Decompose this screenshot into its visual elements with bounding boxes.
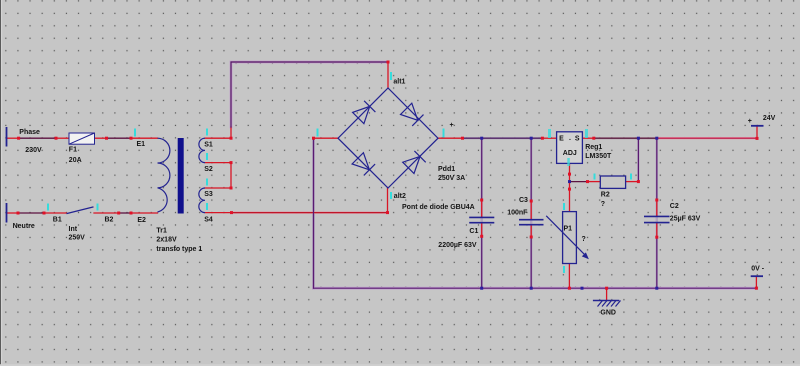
diode D2 (alt1 to plus, top-right edge) (401, 103, 424, 126)
pin marker plus (443, 129, 445, 138)
svg-text:Neutre: Neutre (13, 223, 35, 230)
wire C1 bottom pin stub (481, 223, 483, 236)
node A1 junction (17, 137, 20, 140)
svg-text:S3: S3 (204, 191, 213, 198)
regulator Reg1 LM350T body (557, 132, 583, 164)
svg-text:transfo type 1: transfo type 1 (156, 246, 202, 253)
svg-text:2x18V: 2x18V (156, 237, 177, 244)
node C1 top rail junction (480, 137, 483, 140)
wire node E1 to transformer primary top (131, 137, 158, 139)
pin marker S1 (206, 129, 208, 136)
wire bridge plus vertex to node P (438, 137, 463, 139)
node P junction (plus) (461, 137, 464, 140)
pin marker alt1 (390, 72, 392, 80)
pin marker S3 (206, 179, 208, 186)
wire halo alt2 run (232, 212, 388, 214)
wire 24V corner up to terminal (756, 126, 758, 139)
node A2 junction (55, 137, 58, 140)
node ADJ pin endpoint (568, 173, 571, 176)
wire node B0 to node B1 (18, 212, 44, 214)
wire C1 column upper (481, 138, 483, 200)
node S3 junction (230, 187, 233, 190)
wire S1 riser and top run to alt1 corner (231, 62, 388, 127)
wire node S1 red stub up (230, 127, 232, 138)
node C2 top rail junction (655, 137, 658, 140)
svg-text:?: ? (601, 201, 605, 208)
svg-text:Int: Int (69, 226, 78, 233)
wire halo top rail left (463, 137, 543, 139)
wire C2 column upper (656, 138, 658, 200)
bridge Pdd1 diamond edges (338, 88, 438, 188)
wire GND stub (606, 288, 608, 300)
svg-text:F1: F1 (69, 147, 77, 154)
svg-text:ADJ: ADJ (563, 150, 577, 157)
wire R2 left node to R2 left pin (588, 181, 601, 183)
wire link node S2 to node S3 (230, 163, 232, 188)
wire S1 pin to node S1 (205, 137, 231, 139)
wire switch right contact to node B2 (94, 212, 119, 214)
wire C1 column lower (481, 236, 483, 288)
node GND rail junction (605, 287, 608, 290)
pin marker P1 top (563, 203, 565, 210)
pin marker alt2 (390, 192, 392, 199)
svg-text:C3: C3 (519, 197, 528, 204)
node regulator output endpoint (592, 137, 595, 140)
svg-text:Tr1: Tr1 (156, 227, 167, 234)
wire alt1 corner down to bridge top vertex (387, 62, 389, 88)
wire regulator ADJ pin column down to P1 top (569, 163, 571, 211)
wire halo top rail mid (594, 137, 657, 139)
wire halo top rail right (657, 137, 757, 139)
node M junction (minus) (312, 137, 315, 140)
transformer Tr1 core (178, 138, 184, 214)
svg-text:230V: 230V (25, 147, 42, 154)
wire halo R2 riser (637, 139, 639, 182)
terminal 0V (output bar) (751, 275, 763, 277)
svg-text:25µF 63V: 25µF 63V (670, 215, 701, 222)
wire R2 right pin to R2 right node (626, 181, 639, 183)
wire C2 top pin stub (656, 200, 658, 216)
node B2 junction (117, 212, 120, 215)
svg-text:E2: E2 (137, 217, 146, 224)
wire R2 right node riser up to top rail (637, 138, 639, 181)
svg-text:S2: S2 (204, 166, 213, 173)
node S1 junction (230, 137, 233, 140)
wire C1 top pin stub (481, 200, 483, 217)
node P1 bottom rail junction (568, 287, 571, 290)
svg-text:+: + (450, 122, 454, 129)
diode D3 (minus to alt2, bottom-left edge) (352, 153, 375, 176)
node S4 junction (230, 211, 233, 214)
node R2 right junction (637, 180, 640, 183)
wire halo S1 riser top run (231, 62, 388, 127)
terminal 24V (output bar) (751, 125, 764, 127)
wire node A2 to fuse F1 left pin (56, 137, 69, 139)
node alt2 junction (386, 211, 389, 214)
pin marker R2 left (594, 174, 596, 180)
wire S4 pin to node S4 (205, 212, 232, 214)
svg-text:100nF: 100nF (507, 210, 528, 217)
wire C2 bottom pin stub (656, 223, 658, 237)
switch Int (blade) (67, 207, 94, 214)
node ADJ T-junction (568, 180, 571, 183)
wire top rail C2 node to 24V corner (657, 137, 757, 139)
svg-text:Pont de diode GBU4A: Pont de diode GBU4A (402, 204, 475, 211)
node S2 junction (230, 161, 233, 164)
svg-text:C2: C2 (670, 203, 679, 210)
svg-text:0V -: 0V - (751, 266, 765, 273)
transformer Tr1 secondary winding S3-S4 (199, 188, 205, 213)
svg-text:250V: 250V (69, 235, 86, 242)
pin marker E1 (134, 129, 136, 137)
wire bottom rail (0V bus) (314, 287, 757, 289)
pin marker regulator ADJ (567, 158, 570, 166)
wire S3 pin to node S3 (205, 187, 231, 189)
svg-text:S1: S1 (204, 142, 213, 149)
svg-text:+: + (748, 118, 752, 125)
pin marker minus (317, 129, 319, 137)
potentiometer P1 arrow (546, 216, 589, 259)
transformer Tr1 secondary winding S1-S2 (199, 138, 205, 162)
svg-text:24V: 24V (763, 115, 776, 122)
node rail junction near P1 (581, 287, 584, 290)
svg-text:P1: P1 (564, 225, 573, 232)
node 24V corner (756, 137, 759, 140)
capacitor C1 plates (469, 217, 494, 222)
wire S2 pin to node S2 (205, 162, 231, 164)
capacitor C3 plates (519, 220, 544, 225)
wire C3 column upper (530, 138, 532, 201)
node E2 junction (130, 212, 133, 215)
terminal Neutre (input bar) (6, 203, 8, 223)
node C3 top rail junction (530, 137, 533, 140)
pin marker switch left (47, 204, 49, 211)
svg-text:Pdd1: Pdd1 (438, 166, 455, 173)
wire top rail node P to regulator input node (463, 137, 543, 139)
node alt1 corner junction (387, 61, 390, 64)
svg-text:alt2: alt2 (394, 193, 406, 200)
svg-text:?: ? (582, 236, 586, 243)
pin marker switch right (97, 204, 99, 211)
transformer Tr1 primary winding (158, 138, 170, 212)
wire node E2 to transformer primary bottom (131, 212, 158, 214)
resistor R2 body (600, 176, 625, 188)
node C3 bottom rail junction (530, 287, 533, 290)
wire node B2 to node E2 (119, 212, 131, 214)
svg-text:250V 3A: 250V 3A (438, 175, 465, 182)
wire node A3 to node E1 (107, 137, 132, 139)
potentiometer P1 body (563, 212, 577, 264)
wire halo bottom rail (314, 287, 757, 290)
node R2 riser rail junction (637, 137, 640, 140)
node regulator input endpoint (541, 137, 544, 140)
wire halo C2 column (656, 139, 658, 288)
svg-text:LM350T: LM350T (585, 153, 612, 160)
wire C3 column lower (530, 237, 532, 288)
wire node S4 to bridge alt2 (bottom run) (232, 212, 388, 214)
svg-text:S: S (575, 136, 580, 143)
wire node B1 to switch left contact (44, 212, 67, 214)
wire halo left riser (312, 139, 315, 288)
wire fuse F1 right pin to node A3 (94, 137, 107, 139)
wire 0V stub up to terminal (755, 277, 757, 288)
wire halo C1 column (481, 139, 483, 288)
svg-text:Reg1: Reg1 (585, 144, 602, 151)
node C1 top pin endpoint (480, 199, 483, 202)
svg-text:2200µF 63V: 2200µF 63V (438, 242, 477, 249)
node C2 top pin endpoint (655, 199, 658, 202)
node C2 bottom pin endpoint (655, 236, 658, 239)
capacitor C2 plates (644, 216, 670, 222)
pin marker R2 right (630, 174, 632, 180)
wire bridge minus vertex to node M (314, 137, 339, 139)
diode D4 (alt2 to plus, bottom-right edge) (403, 151, 426, 174)
ground GND symbol (593, 301, 621, 307)
svg-text:E: E (559, 136, 564, 143)
pin marker regulator S (585, 129, 588, 138)
svg-text:alt1: alt1 (393, 78, 405, 85)
wire P1 bottom pin to bottom rail (568, 264, 570, 289)
svg-text:B1: B1 (53, 216, 62, 223)
wire C2 column lower (656, 237, 658, 288)
wire phase terminal to node A1 (7, 137, 19, 139)
pin marker regulator E (548, 129, 551, 138)
wire regulator output stub (582, 137, 593, 139)
svg-text:Phase: Phase (19, 129, 40, 136)
svg-text:S4: S4 (204, 216, 213, 223)
window bottom edge (0, 364, 800, 366)
wire regulator input stub (542, 137, 556, 139)
node C2 bottom rail junction (655, 287, 658, 290)
wire C3 bottom pin stub (530, 225, 532, 237)
wire ADJ junction to R2 left node (570, 181, 588, 183)
svg-text:E1: E1 (137, 141, 146, 148)
wire neutre terminal to node B0 (7, 212, 19, 214)
node C3 top pin endpoint (530, 200, 533, 203)
node E1 junction (130, 137, 133, 140)
wire node A1 to node A2 (19, 137, 56, 139)
node R2 left endpoint (586, 180, 589, 183)
diode D1 (minus to alt1, top-left edge) (353, 101, 376, 124)
fuse F1 (69, 133, 95, 144)
wire C3 top pin stub (530, 201, 532, 219)
svg-text:.: . (569, 135, 571, 142)
node B0 junction (17, 212, 20, 215)
svg-text:R2: R2 (601, 192, 610, 199)
terminal Phase (input bar) (6, 127, 8, 147)
node ADJ lower endpoint (568, 188, 571, 191)
svg-text:20A: 20A (69, 157, 82, 164)
node C1 bottom rail junction (480, 287, 483, 290)
pin marker S2 (206, 153, 208, 160)
wire top rail output node to C2 node (594, 137, 657, 139)
pin marker S4 (206, 203, 208, 210)
node C3 bottom pin endpoint (530, 236, 533, 239)
node C1 bottom pin endpoint (480, 235, 483, 238)
node 0V corner (755, 287, 758, 290)
svg-text:GND: GND (600, 309, 616, 316)
wire halo C3 column (530, 139, 532, 288)
wire bridge bottom vertex down to alt2 node (387, 188, 389, 213)
svg-text:C1: C1 (469, 228, 478, 235)
pin marker P1 bottom (563, 266, 565, 273)
svg-text:B2: B2 (105, 216, 114, 223)
wire node M riser down to bottom rail (313, 138, 315, 288)
node B1 junction (43, 212, 46, 215)
window left edge (0, 0, 1, 366)
node A3 junction (105, 137, 108, 140)
